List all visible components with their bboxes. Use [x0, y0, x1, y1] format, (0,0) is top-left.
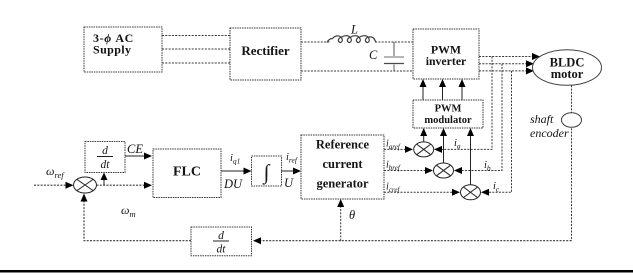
wire tap phase b [455, 64, 502, 171]
wire tap phase a [435, 57, 492, 150]
wire DC top right [375, 41, 413, 43]
wire FLC to integrator [221, 168, 252, 175]
wire CE to FLC [125, 153, 152, 160]
capacitor C [369, 42, 404, 71]
wire summer B to modulator [440, 128, 447, 163]
svg-text:motor: motor [551, 67, 584, 81]
wire modulator-inverter b [439, 79, 446, 100]
svg-text:dt: dt [217, 244, 227, 256]
svg-text:Rectifier: Rectifier [241, 43, 290, 58]
wire inverter-motor phase a [479, 53, 540, 60]
wire modulator-inverter a [420, 79, 427, 100]
svg-text:Supply: Supply [93, 43, 131, 57]
box FLC [153, 149, 221, 198]
shaft encoder ellipse [562, 113, 582, 128]
arrow into speed summer bottom [81, 194, 88, 202]
svg-text:shaft: shaft [530, 112, 554, 126]
svg-text:U: U [284, 176, 294, 190]
svg-text:C: C [369, 48, 378, 62]
wire d/dt2 left to speed summer [84, 197, 191, 241]
wire modulator-inverter c [459, 79, 466, 100]
summer A circle [414, 142, 434, 157]
svg-text:DU: DU [223, 177, 243, 191]
bottom border line [0, 270, 633, 273]
svg-text:Reference: Reference [316, 138, 370, 152]
svg-text:L: L [350, 23, 358, 37]
summer speed circle [74, 177, 97, 193]
box Rectifier [230, 28, 301, 80]
wire DC bottom [301, 70, 413, 72]
box PWM inverter [413, 29, 479, 79]
wire motor shaft down [571, 85, 573, 240]
svg-text:d: d [218, 230, 224, 242]
svg-text:FLC: FLC [173, 165, 201, 180]
wire ibref [384, 167, 433, 174]
input arrow w_ref [34, 182, 74, 189]
wire iaref [384, 146, 413, 153]
svg-text:PWM: PWM [435, 104, 462, 115]
svg-text:generator: generator [316, 177, 369, 191]
box d/dt top [85, 142, 125, 173]
svg-text:inverter: inverter [426, 54, 467, 68]
box 3-phi AC Supply [84, 27, 162, 72]
svg-text:d: d [102, 145, 108, 157]
wire theta up into ref generator [337, 199, 344, 241]
box integrator [252, 156, 282, 186]
svg-text:∫: ∫ [262, 160, 271, 185]
wire inverter-motor phase c [479, 67, 534, 74]
box PWM modulator [413, 100, 483, 128]
arrow ic into summer C [481, 189, 489, 196]
summer B circle [434, 163, 454, 178]
wire error to FLC [97, 182, 153, 189]
wire supply-rectifier line1 [162, 35, 230, 37]
svg-text:modulator: modulator [424, 115, 472, 126]
svg-text:CE: CE [127, 142, 143, 156]
wire supply-rectifier line2 [162, 48, 230, 50]
wire summer C to modulator [467, 128, 474, 185]
svg-text:dt: dt [101, 159, 111, 171]
summer C circle [461, 185, 481, 200]
wire feedback bottom to d/dt2 [253, 237, 572, 244]
arrow ib into summer B [454, 167, 462, 174]
wire DC top left [301, 41, 330, 43]
wire integrator to ref generator [282, 168, 302, 175]
wire summer A to modulator [420, 128, 427, 142]
svg-text:encoder: encoder [530, 126, 569, 140]
wire icref [384, 189, 460, 196]
svg-text:current: current [322, 157, 363, 171]
wire tap phase c [482, 71, 512, 192]
wire branch up into d/dt [101, 173, 108, 186]
box Reference current generator [301, 135, 384, 199]
inductor L [327, 23, 376, 43]
svg-text:θ: θ [349, 208, 355, 222]
wire supply-rectifier line3 [162, 62, 230, 64]
box d/dt bottom [191, 227, 252, 256]
wire inverter-motor phase b [479, 60, 534, 67]
BLDC motor [533, 50, 602, 86]
arrow ia into summer A [434, 146, 442, 153]
